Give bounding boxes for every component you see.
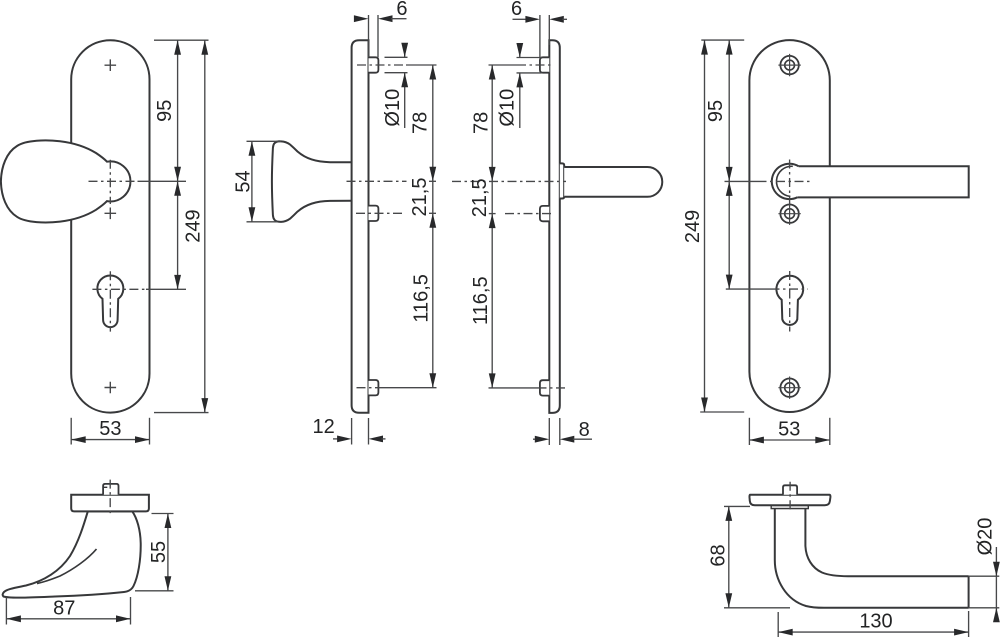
keyhole view4 — [776, 276, 803, 325]
ext 6a v2 — [368, 15, 370, 57]
dim line 130 — [778, 631, 968, 633]
ext screw1 v2 — [406, 64, 437, 66]
ext screw3 v2 — [382, 387, 437, 389]
knob front blob — [1, 140, 131, 222]
ext 8 left — [548, 418, 550, 445]
cl screw2 v3 — [505, 213, 553, 215]
boss3 v3 — [540, 380, 549, 395]
knob detail spindle — [103, 484, 118, 495]
dim line 95/72 view4 — [728, 40, 730, 289]
screw mark bottom — [105, 382, 117, 394]
svg-text:53: 53 — [99, 418, 121, 440]
knob detail flange — [71, 495, 149, 512]
dim o10 upper v2 — [404, 44, 406, 57]
cl knob detail — [109, 480, 111, 516]
dim line 55 — [167, 514, 169, 591]
ext screw1 v3 — [489, 64, 518, 66]
boss2 v2 — [369, 206, 379, 221]
ext 54 top — [247, 140, 282, 142]
tick 181 v2 — [429, 180, 436, 182]
lever detail grip end — [968, 576, 970, 608]
keyhole view1 — [97, 275, 123, 327]
dim tail 12 l — [333, 438, 339, 440]
screw mark top — [105, 59, 117, 71]
dim tail 8 r — [573, 438, 592, 440]
lever detail spindle — [783, 485, 797, 494]
cl screw1 v3 — [517, 64, 553, 66]
svg-text:95: 95 — [705, 100, 727, 122]
view4 inside plate front — [749, 40, 829, 412]
svg-text:249: 249 — [182, 209, 204, 242]
knob detail grip — [3, 511, 141, 597]
ext lever center v4 — [725, 180, 758, 182]
cl screw2 v2 — [356, 212, 404, 214]
ext keyhole v4 — [726, 288, 771, 290]
lever neck inner arc — [776, 166, 792, 196]
lever neck outer arc — [772, 164, 799, 199]
cl screw1 v2 — [357, 64, 406, 66]
knob detail crease — [37, 549, 97, 584]
spindle notch — [103, 486, 107, 488]
svg-text:249: 249 — [682, 210, 704, 243]
dim tail 12 r — [382, 438, 386, 440]
cl lever v v4 — [789, 160, 791, 205]
screw mark mid — [105, 208, 117, 220]
ext 6b v3 — [548, 15, 550, 45]
view2 side knob silhouette — [272, 141, 352, 222]
dim line 87 — [6, 618, 130, 620]
dim tail 8 l — [533, 438, 536, 440]
ext screw3 v3 — [489, 387, 538, 389]
cl screw3 v3 — [538, 387, 566, 389]
dim tail 6 v3 — [513, 18, 527, 20]
ext 87 right — [130, 597, 132, 625]
ext 130 left — [777, 612, 779, 637]
screw bottom v4 — [780, 379, 798, 397]
ext 53 right view4 — [829, 418, 831, 445]
ext o10 top v2 — [385, 56, 408, 58]
svg-text:Ø10: Ø10 — [496, 89, 518, 127]
svg-text:130: 130 — [859, 611, 892, 633]
ext 53 right view1 — [149, 418, 151, 445]
lever detail flange — [749, 495, 830, 506]
cl keyhole v v4 — [789, 271, 791, 332]
dim line 95/72 view1 — [177, 40, 179, 289]
keyhole ext line — [146, 288, 186, 290]
extension knob center — [138, 180, 187, 182]
svg-text:95: 95 — [154, 100, 176, 122]
ext o20 top — [969, 575, 1000, 577]
top ext view4 — [701, 39, 744, 41]
ext 12 left — [351, 418, 353, 445]
ext 8 right — [559, 418, 561, 445]
svg-text:8: 8 — [579, 419, 590, 441]
dim o20 lower — [995, 608, 997, 622]
ext o10 top v3 — [517, 57, 542, 59]
svg-text:53: 53 — [778, 418, 800, 440]
lever detail fill — [775, 509, 969, 608]
lever detail outer edge — [775, 509, 969, 608]
ext 12 right — [368, 418, 370, 445]
centerline knob v dash — [109, 160, 111, 204]
dim line 53 view4 — [749, 439, 829, 441]
dim line 53 view1 — [71, 439, 149, 441]
ext 55 bottom — [135, 590, 174, 592]
dim line 68 — [728, 506, 730, 607]
view1 outside plate front — [71, 40, 149, 412]
boss1 v2 — [369, 57, 379, 72]
svg-text:6: 6 — [396, 0, 407, 20]
screw top v4 — [780, 56, 798, 74]
svg-text:87: 87 — [53, 598, 75, 620]
lever bar v4 — [790, 166, 969, 197]
dim line 249 view4 — [704, 40, 706, 412]
svg-text:54: 54 — [232, 170, 254, 192]
svg-text:55: 55 — [148, 541, 170, 563]
cl lever h v4 — [758, 180, 813, 182]
bottom ext view1 — [154, 412, 209, 414]
boss2 v3 — [540, 206, 549, 221]
svg-text:116,5: 116,5 — [470, 276, 492, 325]
svg-text:Ø20: Ø20 — [974, 518, 996, 556]
ext 87 left — [5, 598, 7, 625]
ext 130 right — [968, 611, 970, 637]
ext 54 bottom — [247, 221, 278, 223]
dim o10 lower v2 — [404, 73, 406, 128]
svg-text:21,5: 21,5 — [409, 178, 431, 217]
dim o20 upper — [995, 547, 997, 576]
tick 213 v3 — [489, 213, 496, 215]
dim tail 6r v3 — [562, 18, 567, 20]
view2 plate side — [352, 40, 369, 413]
ext 6b v2 — [377, 15, 379, 57]
svg-text:78: 78 — [471, 112, 493, 134]
cl lever detail — [789, 482, 791, 511]
dim o10 lower v3 — [519, 73, 521, 128]
keyhole v centerline — [109, 271, 111, 331]
screw mid v4 — [780, 205, 798, 223]
cl lever v3 — [452, 180, 566, 182]
svg-text:12: 12 — [312, 416, 334, 438]
boss1 v3 — [540, 57, 549, 72]
lever detail inner edge — [805, 509, 968, 577]
ext o10 bot v2 — [385, 72, 408, 74]
chain dim v3 — [491, 65, 493, 388]
ext 68 bottom — [724, 607, 790, 609]
svg-text:78: 78 — [409, 112, 431, 134]
cl screw3 v2 — [357, 387, 383, 389]
dim line 249 view1 — [204, 40, 206, 412]
chain dim v2 — [432, 65, 434, 388]
lever stub v3 — [564, 167, 662, 197]
ext o20 bottom — [969, 607, 1000, 609]
ext 6a v3 — [539, 15, 541, 58]
svg-text:21,5: 21,5 — [469, 178, 491, 217]
svg-text:116,5: 116,5 — [411, 274, 433, 323]
ext 53 left view4 — [748, 418, 750, 445]
tick 213 v2 — [429, 212, 436, 214]
lever stub base flange v3 — [560, 163, 564, 198]
boss3 v2 — [369, 380, 379, 395]
cl keyhole h v4 — [771, 288, 809, 290]
cl knob v2 — [347, 180, 407, 182]
view3 plate side — [549, 40, 560, 413]
svg-text:6: 6 — [511, 0, 522, 20]
ext o10 bot v3 — [517, 72, 542, 74]
keyhole h centerline — [92, 288, 146, 290]
top ext view1 — [154, 39, 209, 41]
ext 55 top — [152, 513, 174, 515]
dim tail 6 v2 — [391, 18, 407, 20]
centerline knob h dash — [89, 180, 138, 182]
ext 53 left view1 — [70, 418, 72, 445]
svg-text:Ø10: Ø10 — [382, 89, 404, 127]
dim o10 upper v3 — [519, 45, 521, 58]
dim o20 mid — [995, 576, 997, 608]
lever detail collar — [771, 505, 808, 508]
dim line 54 — [251, 141, 253, 222]
ext 68 top — [724, 505, 750, 507]
bottom ext view4 — [700, 411, 744, 413]
svg-text:68: 68 — [708, 544, 730, 566]
